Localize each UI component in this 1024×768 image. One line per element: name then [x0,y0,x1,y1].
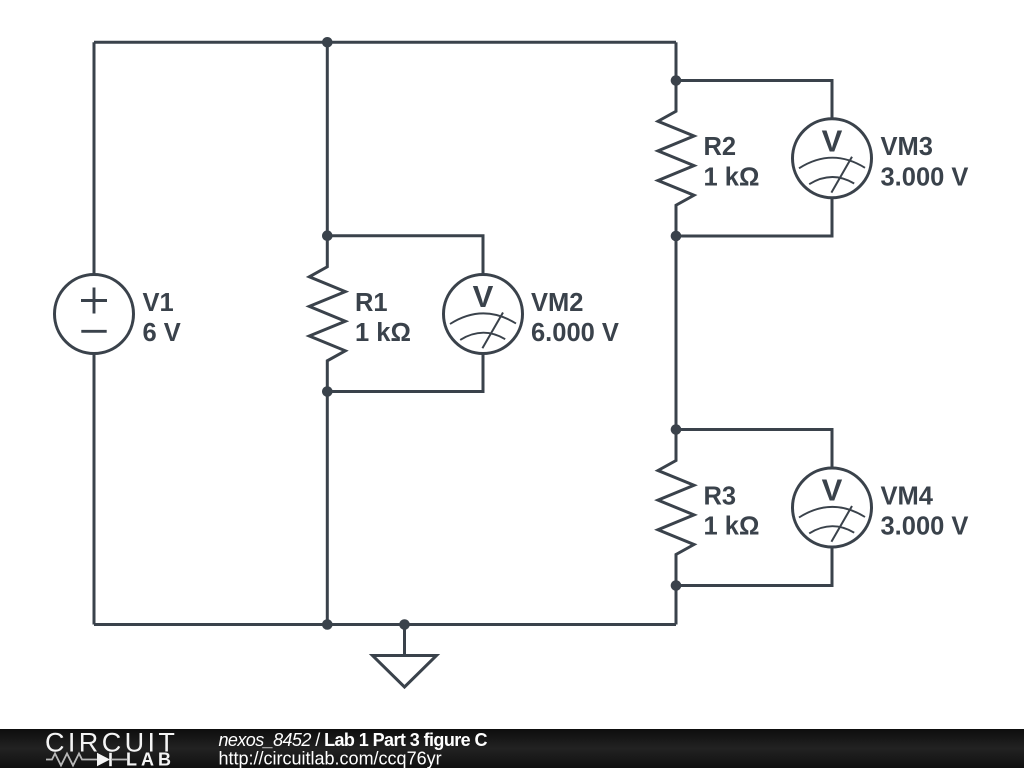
wire left rail lower (V1 to bottom) [93,354,96,625]
node dot top mid [322,37,333,48]
wire right drop to R2 node [675,42,678,80]
svg-text:V: V [473,279,494,314]
resistor R3 [658,430,694,586]
svg-text:3.000 V: 3.000 V [881,513,969,541]
svg-text:http://circuitlab.com/ccq76yr: http://circuitlab.com/ccq76yr [219,748,442,768]
node dot ground [399,619,410,630]
wire VM4 branch bottom [676,547,832,586]
wire VM2 branch top [327,236,483,275]
node dot R3 bottom [671,580,682,591]
node dot R2 bottom [671,231,682,242]
node dot R2 top [671,75,682,86]
wire right column middle (R2 bottom to R3 top) [675,236,678,430]
svg-text:1 kΩ: 1 kΩ [355,319,411,347]
svg-text:V1: V1 [143,289,174,317]
wire mid column top (to R1) [326,42,329,236]
resistor R2 [658,81,694,237]
node dot R3 top [671,424,682,435]
node dot R1 bottom [322,386,333,397]
wire VM3 branch top [676,81,832,119]
wire right column lower (R3 bottom to bottom rail) [675,586,678,625]
svg-text:R1: R1 [355,289,388,317]
svg-text:VM4: VM4 [881,482,934,510]
svg-text:R2: R2 [704,133,737,161]
wire bottom rail [94,623,676,626]
ground [373,656,437,688]
svg-text:R3: R3 [704,482,737,510]
CircuitLab logo diode [97,753,110,766]
voltmeter VM2 [444,275,523,354]
wire VM4 branch top [676,430,832,469]
voltage source V1 [55,275,134,354]
wire ground stub [403,625,406,656]
svg-text:3.000 V: 3.000 V [881,164,969,192]
svg-text:6.000 V: 6.000 V [531,319,619,347]
svg-text:VM3: VM3 [881,133,933,161]
svg-text:V: V [822,473,843,508]
svg-text:V: V [822,123,843,158]
wire VM3 branch bottom [676,198,832,236]
voltmeter VM3 [793,119,872,198]
node dot bottom mid [322,619,333,630]
resistor R1 [309,236,345,392]
wire VM2 branch bottom [327,354,483,392]
wire left rail upper (top to V1) [93,42,96,274]
voltmeter VM4 [793,468,872,547]
wire mid column bottom (R1 to bottom rail) [326,392,329,625]
svg-text:nexos_8452 / Lab 1 Part 3 figu: nexos_8452 / Lab 1 Part 3 figure C [219,730,488,750]
node dot R1 top [322,230,333,241]
wire top rail [94,41,676,44]
svg-text:LAB: LAB [126,750,175,768]
svg-text:6 V: 6 V [143,319,181,347]
svg-text:1 kΩ: 1 kΩ [704,164,760,192]
svg-text:1 kΩ: 1 kΩ [704,513,760,541]
svg-text:VM2: VM2 [531,289,583,317]
CircuitLab logo resistor squiggle [46,754,97,766]
